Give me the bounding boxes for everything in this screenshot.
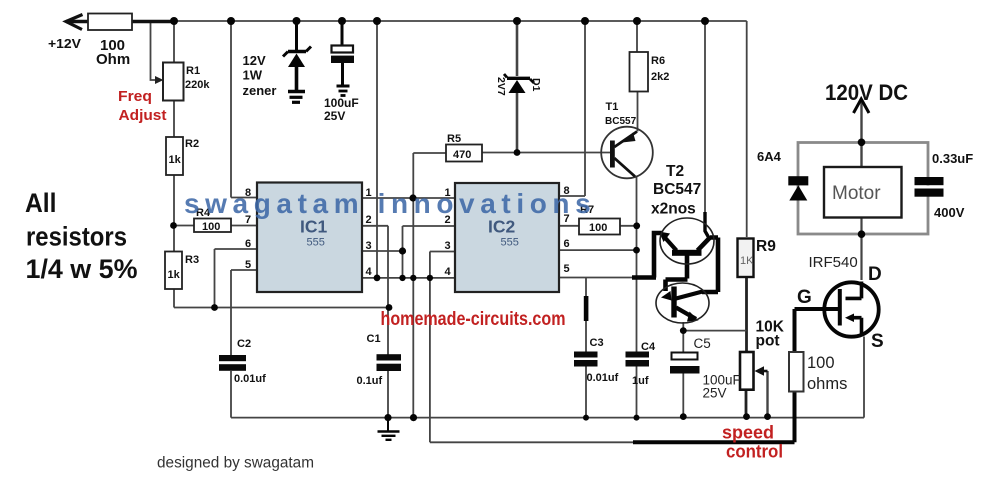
svg-text:100: 100 [202,221,220,233]
svg-text:220k: 220k [185,79,210,91]
svg-text:6: 6 [245,238,251,250]
svg-text:6A4: 6A4 [757,149,782,164]
svg-text:control: control [726,442,783,462]
svg-text:5: 5 [564,263,570,275]
svg-text:C5: C5 [694,336,711,351]
svg-text:C4: C4 [641,341,656,353]
svg-text:R6: R6 [651,55,665,67]
svg-text:IC1: IC1 [300,217,328,237]
svg-text:470: 470 [453,149,471,161]
svg-text:100uF: 100uF [324,96,359,110]
svg-text:IRF540: IRF540 [809,254,858,271]
svg-text:x2nos: x2nos [651,201,696,218]
svg-text:Adjust: Adjust [119,107,167,124]
svg-text:R1: R1 [186,65,200,77]
svg-text:homemade-circuits.com: homemade-circuits.com [381,309,566,330]
svg-text:Motor: Motor [832,183,881,204]
svg-text:C2: C2 [237,338,251,350]
svg-text:C1: C1 [367,333,381,345]
svg-text:BC547: BC547 [653,181,701,198]
svg-text:100: 100 [589,222,607,234]
svg-text:D1: D1 [530,78,542,92]
svg-text:All: All [25,188,57,218]
svg-text:555: 555 [501,237,519,249]
svg-text:S: S [871,331,884,352]
svg-text:R3: R3 [185,254,199,266]
svg-text:resistors: resistors [26,222,127,252]
svg-text:0.33uF: 0.33uF [932,151,973,166]
svg-text:R9: R9 [756,238,776,255]
svg-text:25V: 25V [324,109,345,123]
svg-text:25V: 25V [703,386,727,401]
svg-text:ohms: ohms [807,375,847,393]
svg-text:BC557: BC557 [605,116,637,127]
svg-text:swagatam innovations: swagatam innovations [184,188,596,219]
svg-text:100: 100 [807,354,835,372]
svg-text:designed by swagatam: designed by swagatam [157,455,314,472]
svg-text:pot: pot [756,333,780,350]
svg-text:2k2: 2k2 [651,71,669,83]
svg-text:5: 5 [245,259,251,271]
svg-text:R2: R2 [185,138,199,150]
svg-text:3: 3 [366,240,372,252]
svg-text:12V: 12V [243,53,266,68]
svg-text:120V DC: 120V DC [825,80,908,105]
svg-text:4: 4 [445,266,452,278]
svg-text:zener: zener [243,83,277,98]
svg-text:1W: 1W [243,68,263,83]
svg-text:1uf: 1uf [632,375,649,387]
svg-text:G: G [797,287,812,308]
svg-text:Ohm: Ohm [96,51,130,68]
svg-text:6: 6 [564,238,570,250]
svg-text:R5: R5 [447,133,461,145]
svg-text:D: D [868,264,882,285]
svg-text:Freq: Freq [118,88,152,105]
svg-text:0.1uf: 0.1uf [357,375,383,387]
svg-text:400V: 400V [934,205,965,220]
svg-text:1k: 1k [169,154,182,166]
svg-text:speed: speed [722,423,774,443]
svg-text:3: 3 [445,240,451,252]
svg-text:C3: C3 [590,337,604,349]
svg-text:0.01uf: 0.01uf [234,373,266,385]
svg-text:0.01uf: 0.01uf [587,372,619,384]
svg-text:1K: 1K [740,255,754,267]
svg-text:T2: T2 [666,163,684,180]
svg-text:555: 555 [307,237,325,249]
svg-text:+12V: +12V [48,36,81,51]
svg-text:1k: 1k [168,269,181,281]
svg-text:T1: T1 [606,101,619,113]
svg-text:IC2: IC2 [488,217,516,237]
svg-text:2V7: 2V7 [495,77,507,96]
svg-text:1/4 w 5%: 1/4 w 5% [26,254,138,284]
svg-text:4: 4 [366,266,373,278]
